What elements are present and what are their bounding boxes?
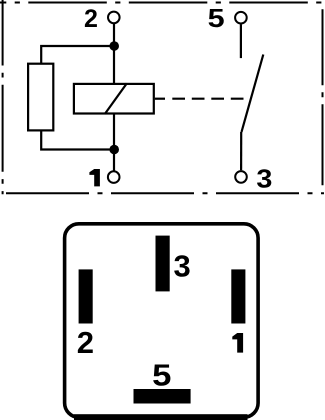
terminal circle 2 [108, 12, 120, 24]
svg-text:2: 2 [84, 5, 98, 33]
pin 3 blade [156, 236, 170, 292]
mechanical link dashed line [172, 98, 246, 100]
svg-text:2: 2 [77, 325, 94, 360]
relay enclosure dash-dot border top edge [0, 2, 323, 4]
wire terminal 5 to fixed contact [240, 24, 242, 58]
pin 1 blade [231, 269, 245, 323]
wire switch arm to terminal 3 [240, 132, 242, 170]
terminal circle 3 [235, 171, 247, 183]
svg-text:5: 5 [208, 3, 225, 33]
pin 5 blade [134, 389, 191, 404]
wire coil bottom to junction B [113, 114, 115, 150]
junction B [109, 145, 119, 155]
relay enclosure dash-dot border right edge [322, 9, 324, 194]
wire junction B to terminal 1 [113, 150, 115, 172]
svg-text:3: 3 [256, 163, 272, 193]
relay coil [74, 84, 154, 114]
junction A [109, 41, 119, 51]
coil stub to mechanical link [155, 98, 165, 100]
relay enclosure dash-dot border bottom edge [0, 192, 324, 194]
relay base outline [65, 224, 259, 417]
wire resistor bottom to junction B [41, 130, 114, 149]
wire terminal 2 to junction A [113, 24, 115, 46]
wire junction A to coil top [113, 46, 115, 84]
svg-text:5: 5 [152, 358, 171, 393]
pin 2 blade [79, 269, 93, 323]
relay enclosure dash-dot border left edge [2, 0, 4, 194]
terminal circle 5 [235, 12, 247, 24]
wire junction A to resistor top [41, 46, 114, 64]
label terminal 1 [89, 169, 100, 186]
relay base bottom edge band (clipped at image bottom) [74, 414, 248, 420]
switch arm [242, 55, 264, 133]
resistor [28, 64, 53, 131]
terminal circle 1 [108, 171, 120, 183]
label pin 1 [232, 333, 243, 353]
coil diagonal stroke [105, 83, 127, 114]
svg-text:3: 3 [174, 248, 191, 283]
